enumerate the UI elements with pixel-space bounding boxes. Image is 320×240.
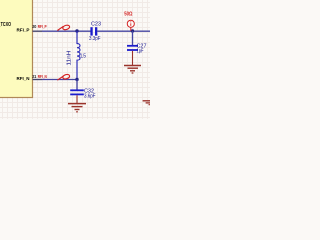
svg-text:RFI_N: RFI_N: [38, 74, 47, 79]
pin 20: [33, 30, 43, 32]
svg-text:RFI_P: RFI_P: [17, 28, 31, 34]
capacitor C32: [70, 89, 84, 95]
junction node top of L5: [75, 29, 78, 32]
wire stub to C32: [76, 80, 78, 90]
svg-text:L5: L5: [81, 53, 87, 59]
svg-text:_TCXO: _TCXO: [0, 22, 11, 28]
ground GND under C32: [68, 95, 86, 112]
capacitor C27: [127, 45, 138, 51]
ground edge-cut bottom right: [143, 101, 150, 105]
wire RFI_P top right segment: [97, 30, 150, 32]
component U TCXO body: [0, 0, 33, 98]
wire RFI_P top left segment: [42, 30, 91, 32]
svg-text:RFI_P: RFI_P: [38, 24, 47, 29]
differential pair directive bottom: [57, 74, 70, 80]
svg-text:C23: C23: [91, 22, 101, 28]
port 50 ohm: [127, 20, 134, 31]
differential pair directive top: [57, 24, 70, 30]
capacitor C23: [90, 27, 97, 35]
svg-text:RFI_N: RFI_N: [17, 76, 31, 82]
background: [0, 0, 150, 119]
svg-text:3.6pF: 3.6pF: [84, 93, 96, 99]
svg-text:3.3pF: 3.3pF: [89, 36, 101, 42]
inductor L5: [77, 31, 80, 80]
svg-text:20: 20: [32, 24, 37, 29]
wire stub to C27: [132, 31, 134, 45]
junction node C27 tap: [131, 29, 134, 32]
svg-text:11nH: 11nH: [67, 50, 73, 65]
junction node bottom of L5: [75, 78, 78, 81]
svg-text:21: 21: [32, 74, 37, 79]
wire RFI_N bottom segment: [42, 79, 77, 81]
svg-text:50Ω: 50Ω: [124, 12, 133, 18]
pin 21: [33, 79, 43, 81]
svg-text:1pF: 1pF: [137, 48, 144, 54]
ground GND under C27: [124, 51, 141, 73]
